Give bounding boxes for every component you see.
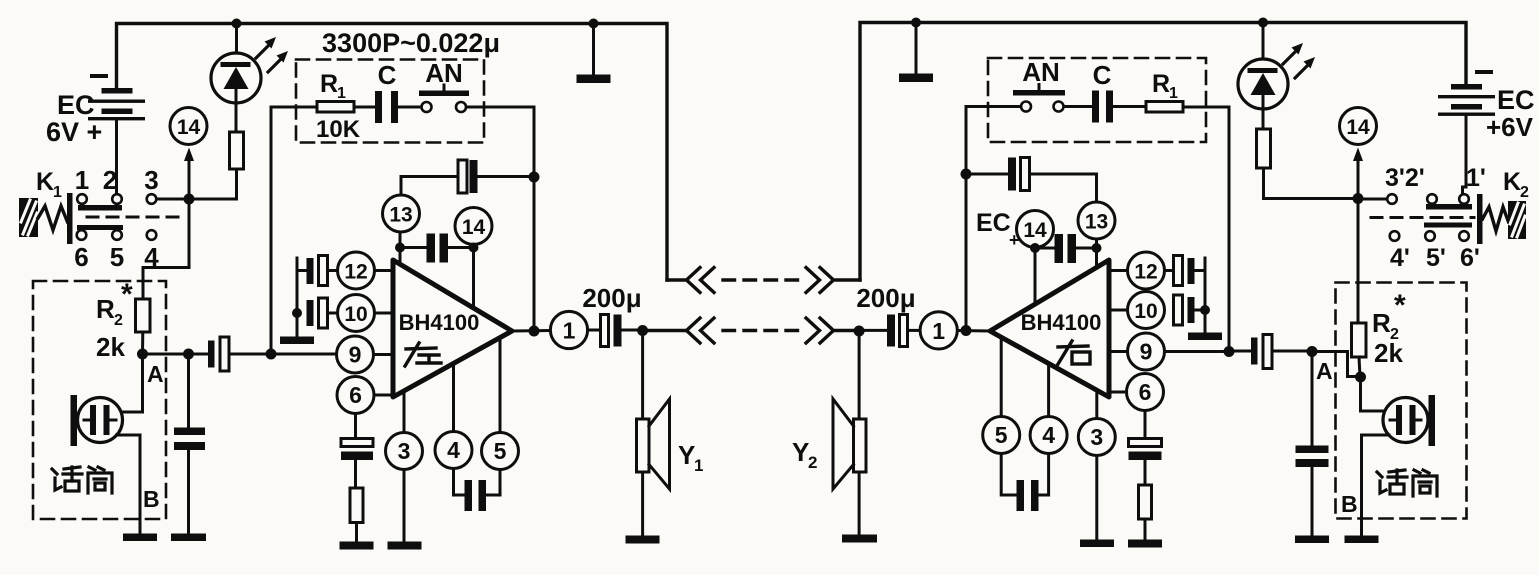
svg-text:12: 12 — [344, 261, 367, 284]
capacitor pin12 left — [297, 256, 338, 286]
pin13 circle left — [383, 195, 420, 232]
pin14 circle right (к K2) — [1340, 108, 1377, 145]
svg-text:2k: 2k — [1374, 338, 1403, 368]
node junction K2-3' right — [1353, 193, 1364, 204]
node junction feedback cap right — [961, 169, 972, 180]
pin6 circle right — [1127, 374, 1164, 411]
node junction ground stub right bus — [911, 18, 921, 28]
wire pin10 to triangle — [375, 312, 394, 315]
svg-text:4: 4 — [447, 437, 460, 463]
transmission line top — [667, 268, 860, 293]
wire pin10 to triangle right — [1109, 309, 1128, 312]
node A right — [1316, 358, 1366, 384]
wire pin4 right — [1047, 364, 1050, 417]
pin1 circle right — [920, 312, 957, 349]
svg-text:4': 4' — [1390, 244, 1410, 272]
microphone right — [1383, 395, 1435, 446]
resistor LED-series right — [1257, 129, 1271, 168]
pin5 circle right — [983, 417, 1020, 454]
svg-text:A: A — [147, 361, 164, 387]
label mic hanzi right (hua) — [1377, 470, 1407, 494]
wire pin5 left — [499, 338, 502, 433]
label mic hanzi right (tong) — [1413, 470, 1437, 496]
capacitor 200u left — [582, 283, 642, 347]
wire pin3 left — [403, 391, 406, 433]
svg-text:4: 4 — [1042, 422, 1055, 448]
pushbutton AN left — [419, 58, 469, 112]
wire down to Y1 — [641, 331, 644, 420]
wire R1 to C left — [354, 106, 375, 109]
pushbutton AN right — [1013, 57, 1065, 112]
svg-text:6: 6 — [349, 382, 362, 408]
label mic hanzi left (hua) — [52, 467, 82, 491]
resistor R1 left — [316, 70, 361, 143]
svg-text:3: 3 — [398, 438, 411, 464]
resistor R2 right — [1352, 289, 1407, 368]
svg-text:B: B — [143, 486, 160, 512]
node junction speaker Y1 — [637, 325, 648, 336]
wire output apex right — [958, 329, 991, 333]
wire node A down to mic right — [1361, 377, 1384, 411]
capacitor C right — [1092, 60, 1113, 123]
wire pin13 to triangle right — [1095, 239, 1098, 267]
svg-text:AN: AN — [1022, 57, 1060, 87]
pin14 circle left-inner — [455, 208, 492, 245]
svg-text:14: 14 — [462, 216, 486, 239]
resistor pin6 right — [1139, 485, 1152, 519]
resistor LED-series left — [230, 132, 244, 169]
node junction output right — [961, 325, 972, 336]
capacitor pin12 right — [1165, 256, 1206, 286]
arrow wire up to pin14 right — [1353, 148, 1363, 199]
ground under pin12/10 caps right — [1188, 333, 1222, 341]
pin12 circle left — [338, 252, 375, 289]
label mic hanzi left (tong) — [88, 467, 112, 493]
svg-text:6: 6 — [1139, 379, 1152, 405]
node junction shunt-cap right — [1307, 346, 1318, 357]
svg-text:3300P~0.022μ: 3300P~0.022μ — [322, 28, 500, 58]
svg-text:5: 5 — [494, 438, 507, 464]
node junction pin13 cap right — [1092, 243, 1102, 253]
node junction feedback cap left — [529, 172, 540, 183]
svg-text:14: 14 — [177, 116, 201, 139]
wire down to Y2 — [858, 331, 861, 419]
LED D2 right — [1238, 23, 1315, 130]
switch K1 — [19, 165, 178, 272]
svg-text:*: * — [121, 278, 133, 311]
wire resistor to K2 node — [1264, 168, 1359, 199]
node A left — [137, 349, 164, 388]
capacitor pin10 right — [1174, 258, 1206, 333]
feedback capacitor right — [966, 158, 1097, 203]
node junction shunt-cap left — [183, 349, 194, 360]
wire pin12 to triangle — [375, 269, 394, 272]
pin4 circle right — [1030, 417, 1067, 454]
svg-text:3: 3 — [1090, 424, 1103, 450]
svg-text:5: 5 — [995, 422, 1008, 448]
svg-text:1: 1 — [75, 165, 89, 195]
svg-text:14: 14 — [1346, 116, 1370, 139]
ground under shunt cap left — [171, 534, 206, 542]
svg-text:6': 6' — [1460, 244, 1480, 272]
ground under mic left — [123, 534, 157, 542]
svg-text:3: 3 — [144, 165, 158, 195]
coupling capacitor left — [189, 337, 337, 371]
node junction pin10 cap right — [1200, 305, 1210, 315]
svg-text:C: C — [378, 60, 397, 90]
svg-text:AN: AN — [425, 58, 463, 88]
svg-text:1: 1 — [337, 85, 346, 102]
speaker Y1 — [637, 399, 704, 536]
label you hanzi right — [1058, 341, 1090, 364]
svg-text:R: R — [1372, 308, 1391, 338]
node junction pin14 cap right — [1030, 243, 1040, 253]
node junction pin13 cap — [395, 243, 405, 253]
svg-text:A: A — [1316, 358, 1333, 384]
svg-text:10: 10 — [344, 303, 367, 326]
wire AN to output riser right — [966, 107, 1021, 331]
resistor R2 left — [96, 278, 150, 362]
svg-text:2: 2 — [1520, 184, 1529, 201]
svg-text:1: 1 — [563, 318, 576, 344]
capacitor C left — [375, 60, 398, 123]
wire node to contact 3' — [1358, 198, 1387, 201]
wire battery to switch contact 2 — [115, 121, 118, 195]
svg-text:+: + — [1009, 230, 1020, 250]
node junction LED left on bus — [232, 19, 242, 29]
wire pin3 right — [1095, 391, 1098, 419]
ground under mic right — [1345, 536, 1379, 544]
microphone box dashed right — [1336, 283, 1467, 519]
microphone left — [71, 395, 123, 446]
wire output apex left — [512, 329, 551, 333]
capacitor pin10 left — [297, 258, 338, 337]
svg-text:6V +: 6V + — [46, 117, 102, 147]
wire resistor to ground pin6 left — [355, 523, 358, 543]
svg-text:9: 9 — [1140, 339, 1153, 365]
wire top-right supply bus — [860, 23, 1466, 281]
pin12 circle right — [1128, 252, 1165, 289]
wire C to R1 right — [1113, 105, 1146, 108]
wire R2 to node A — [141, 332, 144, 354]
svg-text:200μ: 200μ — [582, 283, 641, 313]
capacitor 200u right — [856, 283, 920, 347]
ground under shunt cap right — [1295, 536, 1329, 544]
wire feedback riser left — [271, 107, 317, 354]
svg-text:2: 2 — [103, 165, 117, 195]
svg-text:9: 9 — [349, 342, 362, 368]
svg-text:200μ: 200μ — [856, 283, 915, 313]
svg-text:12: 12 — [1134, 261, 1157, 284]
wire node A down to mic — [123, 354, 143, 412]
ground under Y1 — [626, 536, 660, 544]
wire C to AN left — [398, 106, 422, 109]
wire resistor to K1 node — [189, 169, 237, 199]
pin10 circle left — [338, 295, 375, 332]
capacitor pin6 right — [1129, 411, 1162, 486]
svg-text:6: 6 — [74, 242, 88, 272]
wire pin6 to triangle — [374, 394, 393, 397]
svg-text:R: R — [96, 294, 115, 324]
pin14 circle right-inner — [1017, 211, 1054, 248]
svg-text:C: C — [1093, 60, 1112, 90]
pin14 circle left (к K1) — [170, 108, 207, 145]
LED D1 left — [211, 24, 288, 133]
transmission line bottom — [643, 318, 860, 343]
svg-text:3'2': 3'2' — [1385, 164, 1425, 192]
wire pin14 to triangle — [472, 248, 475, 309]
ground top-middle-left — [577, 24, 611, 84]
svg-text:14: 14 — [1023, 219, 1047, 242]
svg-text:*: * — [1394, 289, 1406, 322]
svg-text:2: 2 — [808, 453, 817, 472]
pin3 circle right — [1078, 419, 1115, 456]
svg-text:EC: EC — [1497, 85, 1535, 115]
pin6 circle left — [337, 377, 374, 414]
wire pin14 to triangle right — [1034, 248, 1037, 306]
wire top-left supply bus — [117, 24, 668, 281]
svg-text:Y: Y — [678, 440, 695, 470]
wire pin12 to triangle right — [1109, 269, 1128, 272]
capacitor pin6 left — [341, 414, 373, 489]
svg-text:+6V: +6V — [1486, 112, 1534, 142]
wire mic to ground left — [117, 435, 141, 534]
capacitor pins13-14 left — [400, 234, 474, 263]
svg-text:5: 5 — [110, 242, 124, 272]
wire pin3 to ground right — [1095, 456, 1098, 541]
svg-text:1: 1 — [1169, 85, 1178, 102]
resistor pin6 left — [350, 488, 363, 523]
switch K2 — [1371, 164, 1529, 272]
battery EC 6V left — [46, 76, 145, 147]
wire pin6 to triangle right — [1109, 391, 1127, 394]
node junction ground stub left bus — [589, 19, 599, 29]
node junction feedback tap left — [266, 349, 277, 360]
shunt capacitor left — [174, 354, 205, 534]
capacitor pins5-4 right — [1001, 454, 1048, 512]
node junction pin10 cap — [292, 308, 302, 318]
resistor R1 right — [1146, 70, 1183, 112]
svg-text:13: 13 — [389, 204, 412, 227]
wire R2 to node A right — [1359, 357, 1360, 377]
feedback capacitor left — [401, 160, 534, 195]
wire junction down to R2 left — [143, 199, 189, 299]
node junction K1-3 left — [184, 194, 195, 205]
ground pin6 left — [340, 542, 374, 550]
svg-text:Y: Y — [792, 437, 809, 467]
ground pin3 left — [388, 542, 422, 550]
svg-text:K: K — [36, 168, 54, 196]
svg-text:5': 5' — [1426, 244, 1446, 272]
svg-text:2: 2 — [114, 312, 123, 329]
svg-text:1: 1 — [694, 456, 703, 475]
svg-text:BH4100: BH4100 — [399, 310, 480, 335]
feedback box dashed left — [296, 60, 484, 143]
pin3 circle left — [386, 433, 423, 470]
wire pin5 right — [1000, 338, 1003, 417]
wire node A to cap node — [143, 353, 189, 356]
speaker Y2 — [792, 399, 866, 535]
svg-text:2k: 2k — [96, 332, 125, 362]
svg-text:13: 13 — [1085, 211, 1108, 234]
svg-text:4: 4 — [144, 242, 159, 272]
node junction speaker Y2 — [854, 326, 865, 337]
svg-text:EC: EC — [976, 209, 1011, 237]
wire AN to output riser left — [467, 107, 535, 331]
pin1 circle left — [550, 311, 587, 348]
wire resistor to ground pin6 right — [1144, 519, 1147, 540]
svg-text:10K: 10K — [316, 116, 361, 143]
op-amp U2 BH4100 right — [990, 260, 1109, 397]
pin9 circle left — [337, 336, 374, 373]
wire pin13 to triangle — [399, 232, 402, 265]
svg-text:B: B — [1341, 491, 1358, 517]
wire pin9 to triangle — [374, 353, 394, 356]
svg-text:R: R — [320, 70, 338, 98]
svg-text:K: K — [1503, 168, 1521, 196]
pin9 circle right — [1128, 333, 1165, 370]
wire K1 contact3 to node — [157, 198, 190, 201]
wire pin3 to ground — [403, 470, 406, 543]
svg-text:EC: EC — [57, 90, 95, 120]
pin5 circle left — [482, 433, 519, 470]
ground top-middle-right — [899, 23, 933, 83]
microphone box dashed left — [33, 281, 166, 519]
svg-text:BH4100: BH4100 — [1021, 310, 1102, 335]
svg-text:1: 1 — [53, 184, 62, 201]
node junction output left — [529, 326, 540, 337]
battery EC +6V right — [1438, 72, 1535, 142]
wire battery to K2 contact 1' — [1463, 116, 1467, 194]
ground pin3 right — [1080, 540, 1114, 548]
wire AN to C right — [1064, 105, 1093, 108]
node junction pin14 cap — [469, 243, 479, 253]
arrow wire up to pin14 left — [184, 148, 194, 200]
shunt capacitor right — [1296, 352, 1329, 537]
ground under pin12/10 caps left — [280, 337, 314, 345]
label EC supply right — [976, 209, 1020, 250]
wire pin9 row to node A right (jog) — [1312, 352, 1361, 377]
pin13 circle right — [1078, 202, 1115, 239]
capacitor pins4-5 left — [454, 469, 501, 512]
ground pin6 right — [1128, 540, 1162, 548]
label zuo hanzi left — [405, 343, 441, 366]
feedback box dashed right — [988, 58, 1206, 142]
coupling capacitor right — [1229, 335, 1312, 369]
pin4 circle left — [435, 432, 472, 469]
node junction feedback tap right — [1224, 346, 1235, 357]
node junction LED right on bus — [1258, 18, 1268, 28]
svg-text:10: 10 — [1134, 300, 1157, 323]
wire pin9 to feedback tap right — [1165, 350, 1230, 353]
svg-text:R: R — [1152, 70, 1170, 98]
wire node down to R2 right — [1357, 199, 1360, 324]
wire mic to ground right — [1362, 435, 1390, 536]
wire feedback riser right — [1183, 107, 1229, 352]
op-amp U1 BH4100 left — [393, 260, 512, 397]
pin10 circle right — [1128, 292, 1165, 329]
svg-text:1': 1' — [1466, 164, 1486, 192]
svg-text:1: 1 — [932, 318, 945, 344]
ground under Y2 — [842, 535, 877, 543]
capacitor pins13-14 right — [1035, 234, 1097, 263]
wire pin9 to triangle right — [1109, 350, 1128, 353]
wire pin4 left — [452, 364, 455, 432]
